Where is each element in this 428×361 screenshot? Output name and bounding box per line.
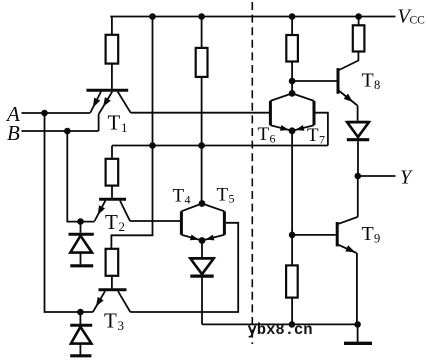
svg-text:Y: Y xyxy=(400,167,413,189)
transistor pair T4 T5 xyxy=(181,200,224,244)
transistor T8 xyxy=(338,52,358,121)
diode D2 (A clamp) xyxy=(70,312,92,355)
svg-text:3: 3 xyxy=(118,318,125,333)
ground (under D2) xyxy=(70,354,91,357)
node Vcc label xyxy=(398,6,426,28)
svg-text:9: 9 xyxy=(374,231,380,245)
resistor R4 (T8 collector) xyxy=(353,17,365,52)
diode D4 (T8 emitter) xyxy=(347,122,369,176)
resistor R6 (T2 base) xyxy=(106,146,119,198)
resistor R2 (from Vcc to T4/T5) xyxy=(196,17,208,204)
wire Vcc rail xyxy=(110,16,395,18)
transistor T3 xyxy=(93,290,130,312)
svg-text:T: T xyxy=(362,223,374,245)
svg-text:8: 8 xyxy=(374,78,380,92)
wire Vcc drop to T3 base resistor xyxy=(111,17,152,249)
svg-text:T: T xyxy=(105,210,118,234)
wire T7 base loop xyxy=(314,113,328,146)
transistor T9 xyxy=(337,217,358,325)
transistor T1 (multi-emitter) xyxy=(86,90,130,131)
svg-text:T: T xyxy=(258,124,270,145)
resistor R1 (T1 base, from Vcc) xyxy=(106,17,119,89)
svg-text:T: T xyxy=(307,125,319,146)
svg-text:5: 5 xyxy=(229,192,235,206)
wire input A xyxy=(22,112,91,114)
diode D1 (B clamp) xyxy=(69,222,94,265)
wire T9 base line xyxy=(292,234,336,236)
wire output Y xyxy=(358,175,396,177)
wire T3 collector to T5 base xyxy=(130,223,238,312)
resistor R7 (T3 base) xyxy=(106,249,119,289)
diode D3 (below T4/T5) xyxy=(190,241,214,325)
ground (under D1) xyxy=(70,264,93,267)
svg-text:1: 1 xyxy=(121,120,128,135)
node input A xyxy=(5,102,20,126)
svg-text:T: T xyxy=(108,111,121,135)
resistor R5 (T9 base-emitter) xyxy=(286,265,298,324)
node output Y xyxy=(355,173,362,180)
svg-text:T: T xyxy=(217,185,229,206)
svg-text:T: T xyxy=(173,186,185,207)
ground (main, bottom right) xyxy=(344,324,372,343)
wire A drop to T3 emitter xyxy=(45,113,93,312)
wire T6/T7 emitter drop to T9 base and R5 xyxy=(291,131,293,266)
svg-text:B: B xyxy=(7,121,20,145)
svg-text:T: T xyxy=(104,309,117,333)
node input B xyxy=(7,121,20,145)
wire bottom line to ground node xyxy=(202,323,358,325)
wire input B xyxy=(22,130,99,132)
wire node line y=145.5 xyxy=(112,145,328,147)
svg-text:ybx8.cn: ybx8.cn xyxy=(248,321,313,339)
dashed divider line xyxy=(251,2,253,344)
wire T2 collector to T4 base xyxy=(130,220,180,222)
svg-text:CC: CC xyxy=(410,15,426,27)
svg-text:2: 2 xyxy=(119,219,126,234)
wire T1 collector to T6 base xyxy=(131,112,270,114)
svg-text:7: 7 xyxy=(319,132,325,146)
transistor T2 xyxy=(95,199,130,221)
wire T8 base line xyxy=(292,80,337,82)
svg-text:T: T xyxy=(362,70,374,92)
wire Y node down to T9 collector xyxy=(357,176,359,217)
resistor R3 (from Vcc to T6/T7) xyxy=(286,17,298,94)
svg-text:6: 6 xyxy=(270,131,276,145)
transistor pair T6 T7 xyxy=(270,90,314,134)
svg-text:4: 4 xyxy=(185,193,191,207)
wire B drop to T2 emitter xyxy=(67,131,94,222)
